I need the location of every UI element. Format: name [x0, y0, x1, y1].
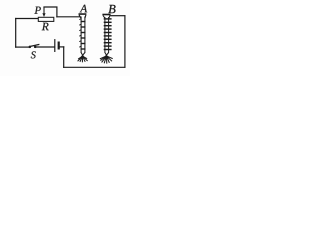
- label P: [34, 7, 40, 14]
- wire top-right to coil B: [110, 15, 125, 17]
- wire to coil A: [57, 16, 80, 18]
- label S: [31, 51, 36, 58]
- battery short plate: [58, 43, 60, 49]
- wire slider riser: [44, 7, 57, 17]
- wire left vertical: [15, 19, 17, 48]
- label B: [108, 5, 115, 13]
- rheostat box R: [38, 17, 54, 21]
- switch S lever: [30, 45, 39, 47]
- switch node left: [29, 46, 32, 49]
- coil B tassel: [100, 53, 113, 64]
- coil B: [102, 15, 111, 54]
- wire right-down vertical: [63, 47, 65, 67]
- battery long plate: [54, 40, 56, 52]
- wire bottom horizontal: [64, 66, 125, 68]
- switch node right: [34, 46, 37, 49]
- coil A tassel: [78, 53, 88, 63]
- wire battery to corner: [60, 46, 64, 48]
- wire top-left horizontal: [16, 18, 39, 20]
- rheostat slider arrow: [43, 7, 45, 14]
- wire switch to battery: [36, 46, 54, 48]
- coil A: [79, 14, 87, 53]
- label A: [80, 5, 88, 13]
- wire right vertical: [124, 16, 126, 68]
- label R: [42, 23, 49, 30]
- wire bottom-left to switch: [16, 46, 29, 48]
